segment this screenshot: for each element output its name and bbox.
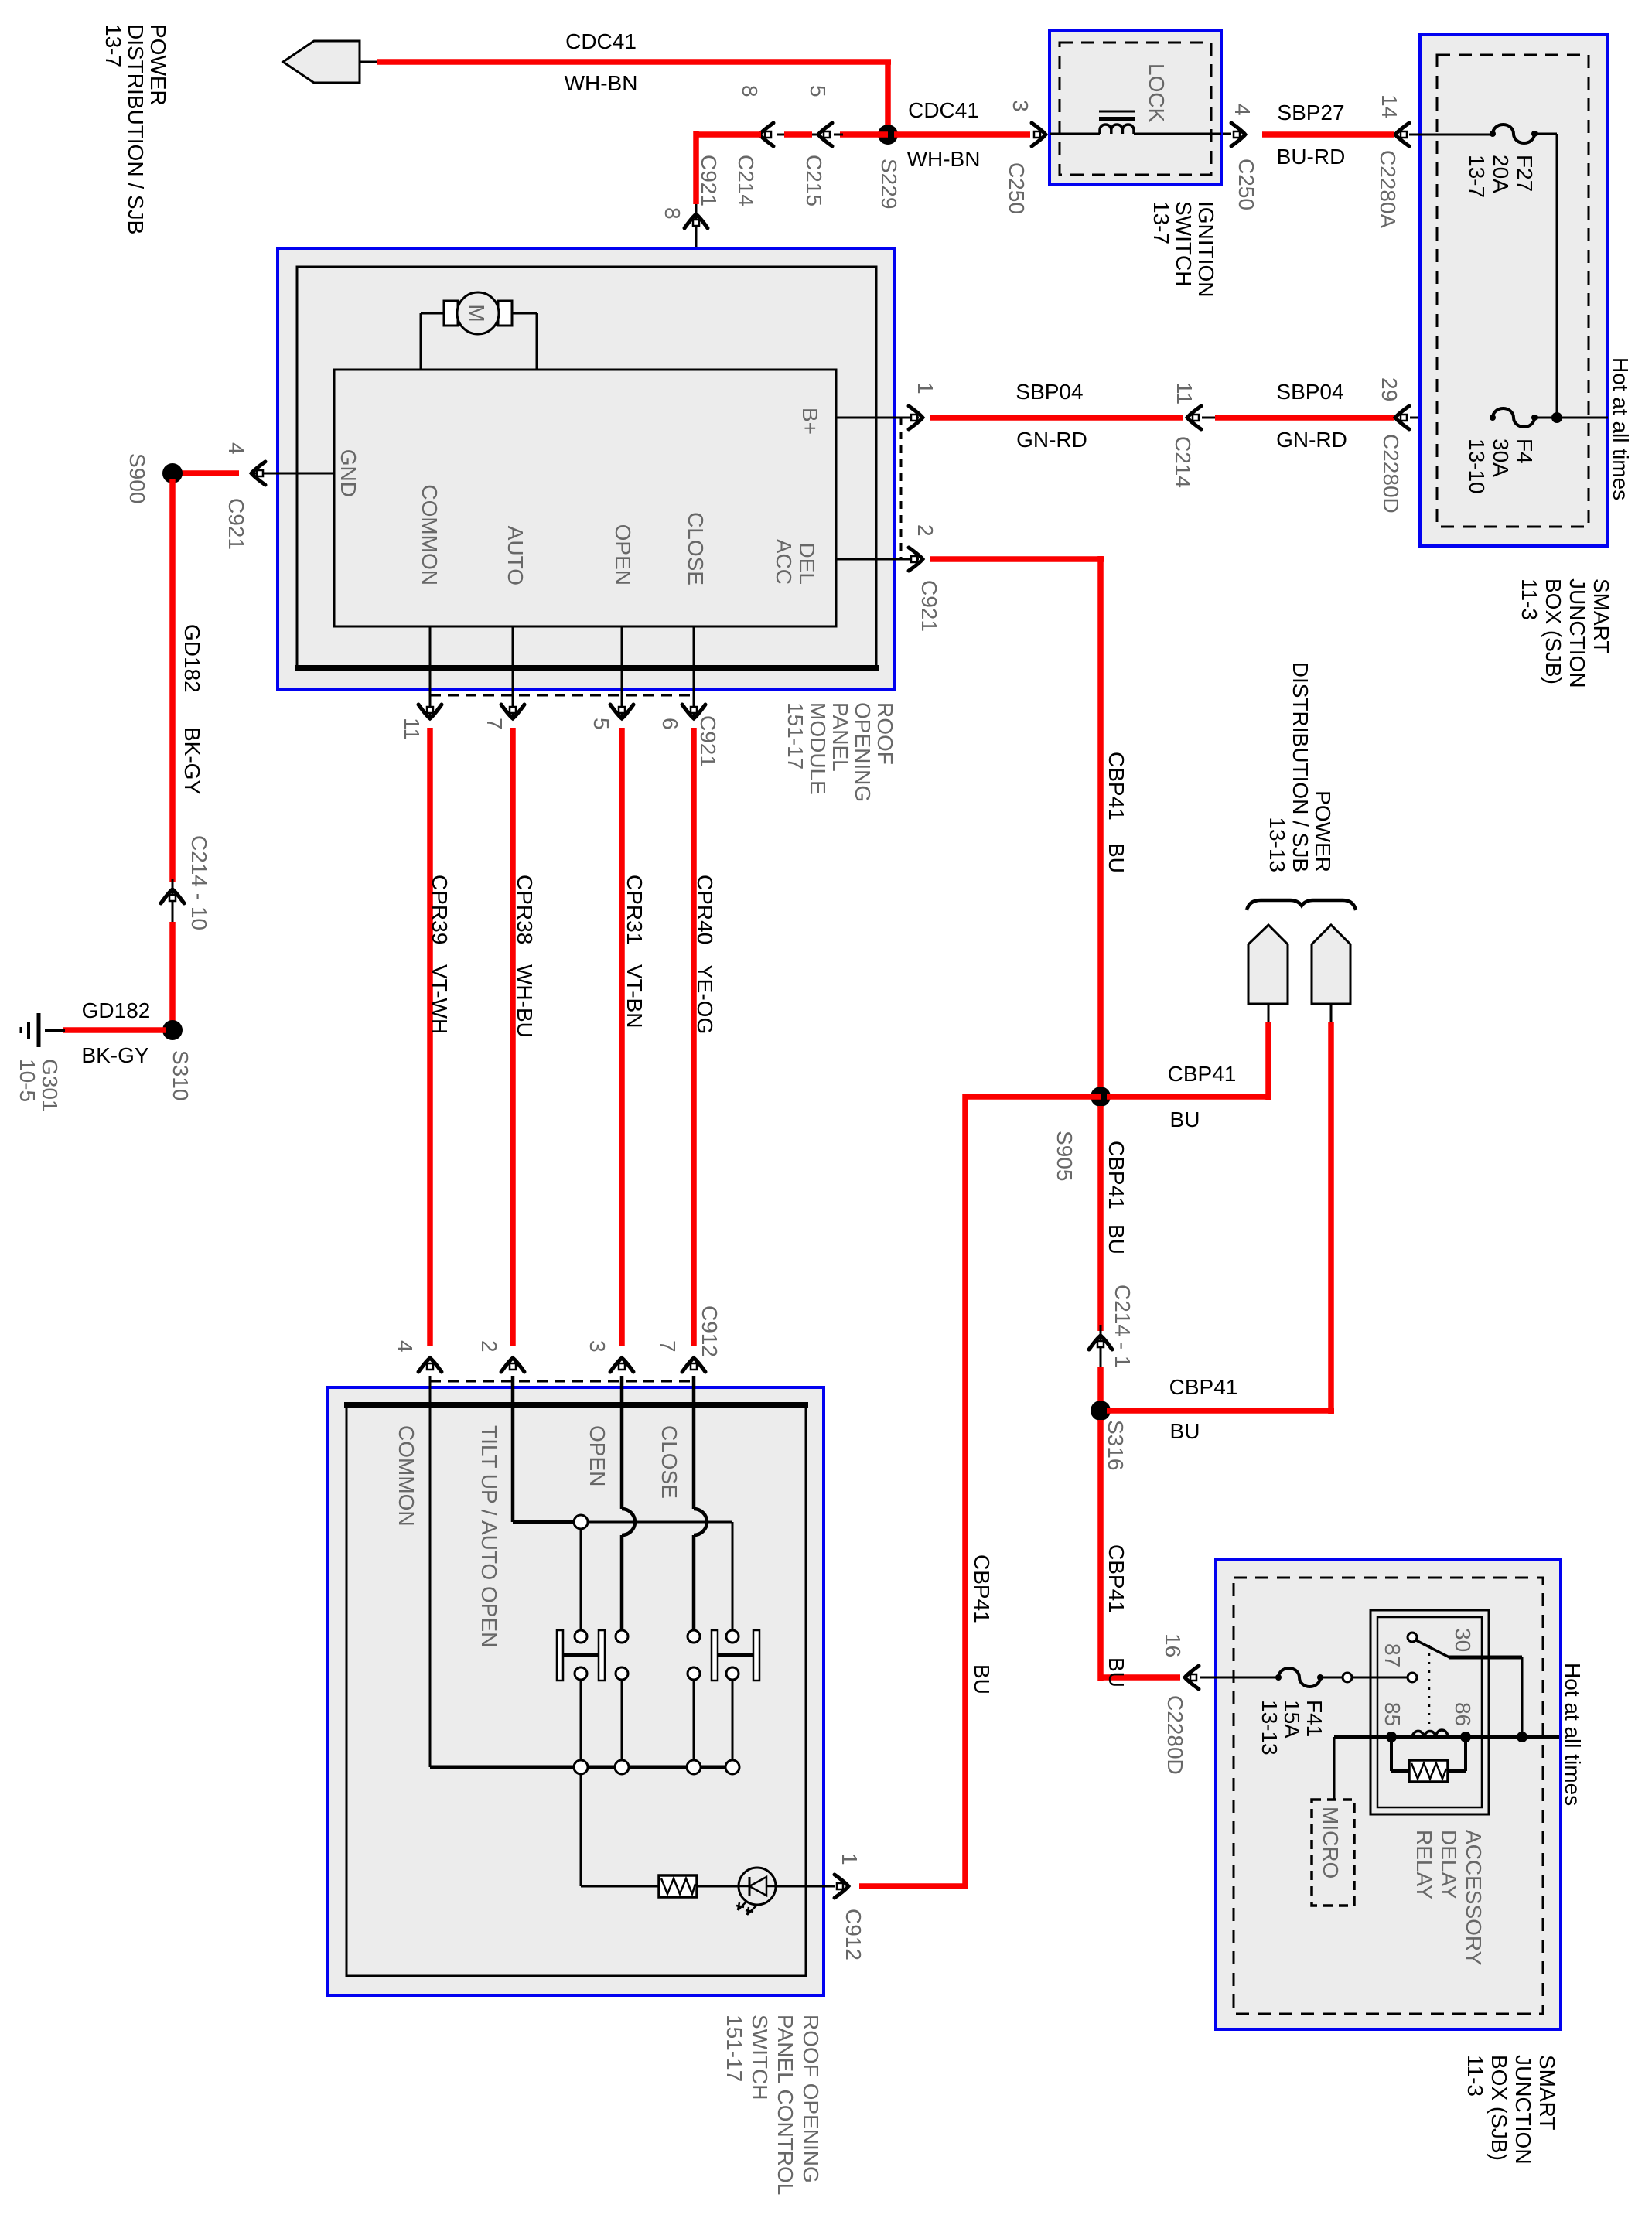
svg-text:S310: S310: [169, 1050, 193, 1100]
wire CBP41 BU S905 down to C214-1: [1097, 1106, 1104, 1331]
SJB2 dashed border: [1234, 1578, 1543, 2014]
svg-text:S316: S316: [1104, 1420, 1128, 1470]
wire F27 to C2280A: [1409, 134, 1493, 136]
ignition lock solenoid: [1050, 133, 1100, 135]
svg-text:SWITCH: SWITCH: [748, 2015, 772, 2100]
fuse F27 20A: [1493, 125, 1534, 143]
contact leads to common bus: [580, 1680, 582, 1761]
svg-text:SBP27: SBP27: [1277, 101, 1344, 125]
relay resistor: [1390, 1737, 1393, 1771]
module pin wire 5: [621, 626, 623, 717]
svg-text:4: 4: [1230, 104, 1254, 116]
svg-text:BU: BU: [1170, 1107, 1200, 1131]
svg-text:C912: C912: [698, 1305, 722, 1357]
wire GD182 BK-GY to splice S310: [169, 922, 176, 1033]
svg-text:PANEL CONTROL: PANEL CONTROL: [773, 2015, 797, 2195]
svg-text:BK-GY: BK-GY: [180, 727, 204, 794]
module pin wire 11: [429, 626, 432, 717]
svg-text:13-7: 13-7: [1465, 155, 1489, 198]
svg-text:CBP41: CBP41: [1104, 1544, 1128, 1613]
roof opening panel control switch outer box: [328, 1387, 824, 1995]
svg-text:C2280D: C2280D: [1163, 1695, 1187, 1775]
svg-text:3: 3: [1009, 100, 1032, 112]
svg-text:S900: S900: [125, 453, 149, 503]
illumination LED: [739, 1868, 776, 1905]
svg-text:85: 85: [1381, 1702, 1405, 1726]
wire GD182 BK-GY down from S900: [169, 479, 176, 882]
wire CBP41 BU flag2 to S316: [1328, 1022, 1334, 1414]
accessory delay relay box: [1370, 1610, 1489, 1814]
module inner black box: [297, 267, 876, 668]
svg-text:JUNCTION: JUNCTION: [1511, 2055, 1535, 2165]
svg-text:DISTRIBUTION / SJB: DISTRIBUTION / SJB: [124, 24, 148, 234]
svg-text:14: 14: [1377, 94, 1401, 118]
svg-text:C250: C250: [1005, 162, 1029, 214]
svg-text:SBP04: SBP04: [1276, 380, 1343, 404]
connector C921 pin 7: [501, 705, 524, 718]
connector C921 pin 5: [610, 705, 633, 718]
svg-text:S905: S905: [1053, 1131, 1077, 1181]
splice S229: [878, 125, 898, 145]
svg-text:GD182: GD182: [180, 624, 204, 693]
wire CPR39 VT-WH: [427, 728, 433, 1346]
svg-text:11-3: 11-3: [1463, 2055, 1487, 2097]
MICRO box: [1333, 1737, 1336, 1800]
connector C912 pin 7: [682, 1358, 705, 1372]
svg-text:POWER: POWER: [1311, 790, 1335, 872]
svg-text:CBP41: CBP41: [1168, 1062, 1237, 1086]
splice S905: [1091, 1087, 1111, 1107]
svg-text:JUNCTION: JUNCTION: [1565, 578, 1589, 688]
relay blade: [1415, 1640, 1449, 1657]
module body: [334, 370, 836, 626]
connector C912 pin 4: [418, 1358, 442, 1372]
wire CPR38 WH-BU: [510, 728, 516, 1346]
connector C250 pin 3: [1032, 123, 1046, 146]
svg-text:CLOSE: CLOSE: [657, 1425, 681, 1499]
wire GD182 BK-GY to ground: [63, 1027, 166, 1033]
svg-text:DELAY: DELAY: [1437, 1830, 1461, 1899]
svg-text:8: 8: [738, 85, 762, 97]
svg-text:13-13: 13-13: [1265, 817, 1289, 872]
svg-text:SMART: SMART: [1589, 578, 1613, 654]
svg-text:WH-BN: WH-BN: [907, 147, 981, 171]
relay coil bus (Hot at all times): [1334, 1735, 1559, 1739]
connector C921 pin 11: [418, 705, 442, 718]
svg-text:CDC41: CDC41: [565, 29, 637, 53]
svg-text:C214: C214: [1171, 436, 1195, 488]
SJB dashed border: [1437, 55, 1589, 527]
svg-text:C921: C921: [917, 580, 941, 632]
connector C921 pin 8 (module top): [695, 204, 698, 370]
connector C921 pin 2: [909, 548, 923, 571]
svg-text:BU: BU: [1104, 843, 1128, 873]
wire CBP41 BU to splice S316: [1097, 1367, 1104, 1414]
CLOSE switch contacts: [688, 1630, 700, 1643]
wire segment S229 to C215: [840, 131, 888, 138]
svg-text:BU: BU: [1170, 1419, 1200, 1443]
svg-text:CLOSE: CLOSE: [684, 512, 708, 585]
fuse F4 30A: [1493, 408, 1534, 427]
svg-text:IGNITION: IGNITION: [1194, 201, 1218, 297]
svg-text:2: 2: [477, 1340, 501, 1353]
off-page flag 1 to power distribution: [1248, 925, 1288, 1004]
terminal circle F41: [1343, 1673, 1352, 1682]
junction node F4/F27: [1551, 412, 1562, 423]
svg-text:RELAY: RELAY: [1412, 1830, 1436, 1899]
svg-text:13-7: 13-7: [1149, 201, 1173, 244]
wire COMMON inside switch: [429, 1376, 432, 1767]
connector C214 pin 10: [172, 879, 174, 925]
svg-text:CBP41: CBP41: [1104, 752, 1128, 821]
svg-text:BU: BU: [1104, 1224, 1128, 1254]
svg-text:ACC: ACC: [772, 539, 796, 585]
svg-text:AUTO: AUTO: [503, 526, 527, 585]
wire CLOSE inside switch with hop: [692, 1376, 696, 1509]
wire F27 to F4 junction: [1534, 133, 1557, 135]
svg-text:20A: 20A: [1489, 155, 1513, 193]
svg-text:SMART: SMART: [1535, 2055, 1559, 2131]
connector C921 pin 6: [682, 705, 705, 718]
wire to illumination LED: [580, 1774, 582, 1886]
svg-text:MICRO: MICRO: [1319, 1807, 1343, 1878]
svg-text:GN-RD: GN-RD: [1016, 428, 1087, 452]
svg-text:6: 6: [658, 718, 682, 730]
svg-text:BOX (SJB): BOX (SJB): [1487, 2055, 1511, 2161]
svg-text:1: 1: [838, 1853, 862, 1865]
switch inner black box: [346, 1405, 806, 1976]
wire CBP41 BU from module pin 2: [930, 556, 1104, 562]
svg-text:5: 5: [806, 85, 830, 97]
svg-text:BU-RD: BU-RD: [1277, 145, 1346, 169]
wire TILT UP / AUTO OPEN inside switch: [511, 1376, 515, 1522]
bracket over flags: [1247, 900, 1356, 910]
tilt contact circle: [574, 1515, 588, 1529]
roof opening panel module outer box: [278, 248, 894, 689]
off-page flag 2 to power distribution: [1312, 925, 1350, 1004]
svg-text:WH-BN: WH-BN: [565, 71, 638, 95]
relay coil junction dots: [1386, 1732, 1397, 1742]
svg-text:B+: B+: [798, 408, 822, 435]
svg-text:YE-OG: YE-OG: [693, 964, 717, 1034]
connector C2280D pin 16: [1185, 1666, 1199, 1689]
svg-text:BU: BU: [970, 1664, 994, 1694]
svg-text:2: 2: [913, 524, 937, 537]
connector C921 pin 4: [251, 462, 265, 485]
module pin B+ wire: [836, 417, 919, 419]
svg-text:4: 4: [224, 442, 248, 455]
svg-text:7: 7: [656, 1340, 680, 1353]
svg-text:ACCESSORY: ACCESSORY: [1462, 1830, 1486, 1966]
svg-text:5: 5: [589, 718, 613, 730]
motor M: [421, 312, 444, 315]
svg-text:VT-WH: VT-WH: [428, 964, 452, 1034]
svg-text:151-17: 151-17: [783, 702, 807, 769]
svg-text:C912: C912: [841, 1909, 865, 1960]
connector C2280A pin 14: [1395, 123, 1409, 146]
fuse F41 15A: [1278, 1668, 1320, 1687]
connector C215 pin 5: [818, 123, 832, 146]
svg-text:C921: C921: [696, 715, 720, 767]
wire CPR31 VT-BN: [619, 728, 625, 1346]
svg-text:11: 11: [1172, 382, 1196, 404]
connector C912 pin 1: [835, 1875, 848, 1898]
svg-text:15A: 15A: [1280, 1700, 1304, 1739]
svg-text:SBP04: SBP04: [1015, 380, 1083, 404]
svg-text:COMMON: COMMON: [394, 1425, 418, 1527]
connector C912 dashed line (switch top): [430, 1380, 694, 1383]
connector C2280D pin 29: [1395, 406, 1409, 429]
pushbutton OPEN (H bracket): [557, 1630, 563, 1681]
smart junction box (SJB) outer box: [1420, 35, 1608, 546]
svg-text:CBP41: CBP41: [970, 1554, 994, 1623]
svg-text:MODULE: MODULE: [806, 702, 830, 795]
smart junction box 2 outer box: [1216, 1559, 1561, 2029]
dashed connector line C921: [900, 418, 903, 559]
connector C912 pin 2: [501, 1358, 524, 1372]
module pin wire 6: [693, 626, 695, 717]
connector C214 pin 8: [759, 123, 773, 146]
ignition switch LOCK box: [1050, 31, 1221, 185]
svg-text:C921: C921: [697, 155, 721, 206]
svg-text:TILT UP / AUTO OPEN: TILT UP / AUTO OPEN: [477, 1425, 501, 1647]
svg-text:Hot at all times: Hot at all times: [1561, 1663, 1585, 1806]
svg-text:13-10: 13-10: [1465, 438, 1489, 494]
module pin wire 7: [512, 626, 514, 717]
illumination resistor: [659, 1875, 697, 1897]
connector C214 pin 1: [1100, 1325, 1102, 1370]
svg-text:30: 30: [1451, 1628, 1475, 1652]
svg-text:87: 87: [1381, 1643, 1405, 1667]
svg-text:BK-GY: BK-GY: [81, 1043, 148, 1067]
svg-text:CPR40: CPR40: [693, 875, 717, 944]
connector C912 pin 3: [610, 1358, 633, 1372]
wire CDC41 WH-BN from S229 to ignition switch: [894, 131, 1030, 138]
svg-text:GN-RD: GN-RD: [1276, 428, 1347, 452]
splice S900: [162, 463, 183, 483]
ground G301: [45, 1029, 65, 1032]
svg-text:8: 8: [660, 207, 684, 220]
svg-text:S229: S229: [877, 159, 901, 209]
svg-text:DEL: DEL: [795, 543, 819, 585]
relay armature dotted link: [1428, 1645, 1431, 1727]
connector C921 pin 1: [909, 406, 923, 429]
wire CBP41 BU S905 left branch down to switch C912: [968, 1094, 1101, 1100]
relay coil: [1412, 1730, 1448, 1737]
svg-text:G301: G301: [38, 1059, 62, 1112]
svg-text:29: 29: [1377, 377, 1401, 401]
wire CPR40 YE-OG: [691, 728, 697, 1346]
svg-text:13-13: 13-13: [1258, 1700, 1282, 1756]
svg-text:11: 11: [400, 718, 424, 740]
svg-text:SWITCH: SWITCH: [1172, 201, 1196, 286]
svg-text:VT-BN: VT-BN: [623, 964, 647, 1028]
svg-text:CBP41: CBP41: [1104, 1141, 1128, 1210]
svg-text:OPENING: OPENING: [851, 702, 875, 802]
wire LED to connector C912 pin 1: [776, 1885, 835, 1888]
svg-text:86: 86: [1451, 1702, 1475, 1726]
svg-text:CDC41: CDC41: [908, 98, 979, 122]
svg-text:OPEN: OPEN: [585, 1425, 609, 1486]
svg-text:7: 7: [483, 718, 507, 730]
svg-text:LOCK: LOCK: [1145, 63, 1169, 123]
svg-text:C2280D: C2280D: [1379, 434, 1403, 514]
svg-text:DISTRIBUTION / SJB: DISTRIBUTION / SJB: [1288, 662, 1312, 872]
svg-text:C214 - 1: C214 - 1: [1111, 1285, 1135, 1367]
wire C921-4 to splice S900: [181, 470, 239, 476]
svg-text:C250: C250: [1234, 159, 1258, 210]
svg-text:F27: F27: [1513, 155, 1537, 192]
svg-text:OPEN: OPEN: [611, 524, 635, 585]
svg-text:ROOF: ROOF: [873, 702, 897, 765]
svg-text:16: 16: [1161, 1633, 1185, 1657]
splice S316: [1091, 1401, 1111, 1421]
svg-text:WH-BU: WH-BU: [513, 964, 537, 1038]
module pin DEL ACC wire: [836, 558, 919, 561]
svg-text:Hot at all times: Hot at all times: [1609, 357, 1633, 500]
wire CBP41 BU S316 down to C2280D-16: [1097, 1420, 1104, 1681]
OPEN switch contacts: [575, 1630, 587, 1643]
connector C214 pin 11: [1187, 406, 1201, 429]
svg-text:ROOF OPENING: ROOF OPENING: [799, 2015, 823, 2183]
svg-text:POWER: POWER: [146, 24, 170, 106]
svg-text:C2280A: C2280A: [1376, 150, 1400, 229]
svg-text:CPR38: CPR38: [513, 875, 537, 944]
svg-text:F4: F4: [1513, 438, 1537, 464]
svg-text:CPR31: CPR31: [623, 875, 647, 944]
off-page connector flag to POWER DISTRIBUTION: [283, 41, 360, 83]
svg-text:13-7: 13-7: [101, 24, 125, 67]
svg-text:C214 - 10: C214 - 10: [187, 835, 211, 930]
svg-text:M: M: [465, 304, 489, 322]
wire CDC41 WH-BN (top horizontal): [377, 59, 891, 65]
svg-text:4: 4: [393, 1340, 417, 1353]
svg-text:PANEL: PANEL: [828, 702, 852, 772]
svg-text:C215: C215: [802, 155, 826, 206]
connector C921 dashed line (module bottom): [430, 694, 694, 697]
svg-text:COMMON: COMMON: [418, 484, 442, 585]
wire SBP04 GN-RD (C214 to SJB): [1215, 415, 1394, 421]
wire CBP41 BU from S905 to flag 1: [1107, 1094, 1271, 1100]
svg-text:BU: BU: [1104, 1657, 1128, 1687]
svg-text:10-5: 10-5: [15, 1059, 39, 1102]
wire SBP27 BU-RD: [1262, 131, 1394, 138]
svg-text:F41: F41: [1302, 1700, 1326, 1737]
wire SBP04 GN-RD (module to C214): [930, 415, 1183, 421]
wire OPEN inside switch with hop: [620, 1376, 624, 1509]
svg-text:GND: GND: [336, 449, 360, 497]
svg-text:C214: C214: [734, 155, 758, 206]
splice S310: [162, 1020, 183, 1040]
wire GND pin to connector C921 pin 4: [251, 473, 334, 475]
in-connector dashed wire between C214 and C215: [777, 134, 820, 136]
pushbutton CLOSE (H bracket): [712, 1630, 718, 1681]
svg-text:CBP41: CBP41: [1169, 1375, 1238, 1399]
svg-text:CPR39: CPR39: [428, 875, 452, 944]
svg-text:C921: C921: [224, 498, 248, 550]
svg-text:GD182: GD182: [82, 998, 151, 1022]
switch common bus: [430, 1766, 732, 1769]
wire from C214 to module pin 8: [696, 131, 761, 138]
svg-text:30A: 30A: [1489, 438, 1513, 477]
svg-text:1: 1: [913, 382, 937, 394]
svg-text:BOX (SJB): BOX (SJB): [1541, 578, 1565, 684]
svg-text:11-3: 11-3: [1517, 578, 1541, 620]
svg-text:151-17: 151-17: [722, 2015, 746, 2082]
svg-text:3: 3: [585, 1340, 609, 1353]
connector C250 pin 4: [1231, 123, 1245, 146]
